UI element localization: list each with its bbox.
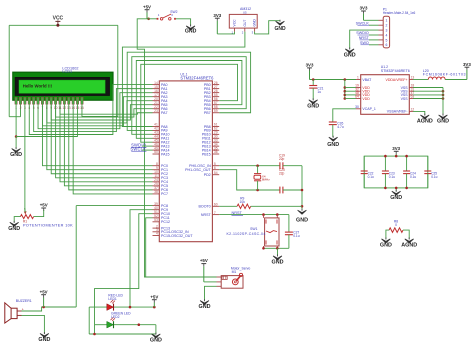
svg-text:3V3: 3V3 [360,6,368,11]
pin 43 PA10 [153,133,160,135]
svg-text:PB7: PB7 [204,111,211,115]
svg-text:SWCLK: SWCLK [130,147,146,152]
wire LCD data to U1 PA3 [42,97,152,126]
wire SW2 to GND [176,19,191,26]
switch SW2 [147,18,158,20]
svg-text:5: 5 [385,38,387,42]
svg-text:7: 7 [214,211,216,215]
pin 38 PC7 [153,193,160,195]
pin 18 VSS [409,87,413,89]
wire 3V3 to P1 pin1 [364,19,379,21]
LED LED2 GREEN LED [95,324,107,326]
svg-text:POTENTIOMENTER 10K: POTENTIOMENTER 10K [23,224,73,228]
wire AM312 GND [255,21,280,34]
wire +5V rail down to servo [137,19,216,277]
pin 14 PA0 [153,84,160,86]
svg-text:GND: GND [307,103,319,109]
pin 22 PA6 [153,108,160,110]
svg-text:+5V: +5V [40,289,48,294]
capacitor C27 0.1u [288,215,290,233]
wire VSSA to AGND [413,111,425,115]
wire LCD data to U1 PC0 [42,104,152,166]
pin 20 PA4 [153,100,160,102]
svg-text:VDD: VDD [362,97,370,101]
potentiometer R1 10K [20,215,33,219]
svg-text:VSSA/VREF-: VSSA/VREF- [387,110,409,114]
pin 52 PC11 [153,217,160,219]
pin 15 PA1 [153,88,160,90]
svg-text:PC15-OSC32_OUT: PC15-OSC32_OUT [161,234,193,238]
pin 31 VSS [409,90,413,92]
wire C19 to GND rail [283,165,302,167]
wire LCD data to U1 PC2 [51,104,152,174]
capacitor C19 22p [279,162,281,169]
pin 36 PB15 [212,153,219,155]
pin 60 BOOT0 [212,205,219,207]
junction crystal bottom [256,189,259,192]
svg-text:+5V: +5V [150,294,158,299]
svg-text:BOOT0: BOOT0 [199,205,211,209]
svg-text:2: 2 [385,24,387,28]
wire buzzer- to GND [22,315,45,333]
svg-text:NRST: NRST [232,211,243,215]
pin 4 P1 [379,34,384,36]
pin 35 PB14 [212,149,219,151]
svg-text:4: 4 [385,33,387,37]
capacitor C24 0.1u [406,156,408,171]
junction buzzer +5V [42,306,45,309]
resistor R9 10k on BOOT0 [219,205,237,207]
wire VDD rail [344,80,346,99]
svg-text:NRST: NRST [201,213,212,217]
pin 55 PB3 [212,96,219,98]
svg-text:GND: GND [327,142,339,148]
pin 5 PH0-OSC_IN [212,165,219,167]
junction SW1 pins top [262,213,265,216]
LCD module LCD1 LCD1602 [13,72,113,100]
resistor R8 0 [389,228,403,233]
wire decoupling bank rails [364,156,428,188]
pin 6 PH1-OSC_OUT [212,169,219,171]
svg-text:GND: GND [380,243,392,249]
svg-text:3: 3 [385,29,387,33]
svg-text:0.1u: 0.1u [389,175,395,179]
pin 29 PB10 [212,133,219,135]
ground GND at buzzer [43,332,45,334]
svg-text:PA15: PA15 [161,152,170,156]
svg-text:+5V: +5V [200,258,208,263]
pin 3 P1 [379,29,384,31]
svg-text:GND: GND [272,260,284,266]
ground AGND at VSSA [424,114,426,116]
pin 8 PC0 [153,165,160,167]
svg-text:PD2: PD2 [204,173,211,177]
connector P1 Header-Male-2.54_1x6 [383,16,389,48]
svg-text:3V3: 3V3 [463,62,471,67]
pin 51 PC10 [153,213,160,215]
capacitor C25 0.1u [427,156,429,171]
wire PH0-OSC_IN to crystal [219,165,280,167]
pin 24 PC4 [153,181,160,183]
wire loop U1 PA10 to PB6 [132,57,246,135]
junction +5V at red LED [153,306,156,309]
svg-text:0.1u: 0.1u [293,234,300,238]
wire U1 PC10 to green LED [95,214,153,325]
wire R1 right to +5V [34,210,44,216]
wire cap bank to GND [395,188,397,191]
svg-text:GND: GND [185,29,197,35]
svg-text:GND: GND [390,195,402,201]
ground GND at VSS [442,114,444,116]
capacitor C22 0.1u [363,156,365,171]
pin 32 VDD [356,90,361,92]
svg-text:8MHz: 8MHz [262,178,270,182]
wire loop U1 PA12 to PB4 [141,64,238,142]
svg-text:LED2: LED2 [111,315,120,319]
pin 19 VDD [356,87,361,89]
svg-text:LCD1: LCD1 [62,69,72,73]
wire servo power [204,281,217,283]
pin 47 VSS [409,94,413,96]
wire U1 PC9 to red LED [130,210,153,307]
pin 37 PC6 [153,189,160,191]
wire loop U1 PA9 to PB7 [127,52,250,130]
svg-text:GND: GND [150,338,162,344]
svg-text:6: 6 [214,166,216,170]
wire loop U1 PA11 to PB5 [136,61,242,139]
pin 5 P1 [379,39,384,41]
svg-text:GND: GND [8,226,20,232]
junction LCD GND net [15,135,18,138]
wire R1 left to GND [14,217,20,223]
ground GND at C21 [312,98,314,100]
wire LCD pin16 to VCC loop [82,104,118,116]
capacitor C21 1u [312,80,314,86]
sensor U5 AM312 [229,14,257,28]
LED LED1 RED LED [89,306,107,308]
ground GND under LCD [15,137,17,149]
pin 2 PC13 [153,227,160,229]
pin 50 PA15 [153,153,160,155]
svg-text:0.1u: 0.1u [410,175,416,179]
svg-text:3V3: 3V3 [213,13,221,18]
svg-text:53: 53 [154,218,158,222]
wire LCD data to U1 PA5 [51,104,152,120]
ground GND at C26 [332,136,334,138]
wire LCD data to U1 PA1 [34,89,153,132]
svg-text:59: 59 [214,109,218,113]
junction crystal top [256,164,259,167]
pin 4 PC15-OSC32_OUT [153,235,160,237]
wire LED return rails to GND [88,307,90,334]
svg-text:23: 23 [154,109,158,113]
pin 53 PC12 [153,221,160,223]
svg-text:6: 6 [385,43,387,47]
inductor L20 FCM1608KF-601T03 [413,79,428,81]
wire R8 left to GND [386,230,389,239]
svg-text:4: 4 [156,232,158,236]
svg-text:SW1: SW1 [250,227,257,231]
pin 25 PC5 [153,185,160,187]
svg-text:LED1: LED1 [108,297,117,301]
pin 30 VCAP_1 [356,108,361,110]
wire P1 pin3 to GND [350,30,379,49]
wire LCD data to U1 PC5 [64,104,152,186]
svg-text:VBAT: VBAT [362,78,372,82]
svg-text:PB15: PB15 [202,152,211,156]
wire LCD data to U1 PC1 [47,104,153,170]
wire buzzer+ to +5V junction and U1 PC8 [22,307,77,311]
pin 41 PA8 [153,126,160,128]
svg-text:PA7: PA7 [161,111,168,115]
capacitor C20 22p [279,187,281,194]
LCD pin pads [15,97,17,104]
svg-text:38: 38 [154,190,158,194]
ground GND at SW2 [190,24,192,26]
wire U1 PC11 to servo row [146,218,153,277]
ground GND at servo [204,299,206,301]
svg-text:PC7: PC7 [161,192,168,196]
pin 21 PA5 [153,104,160,106]
pin 2 P1 [379,24,384,26]
junction C21 tap [312,78,315,81]
junction LED GND rail [93,333,96,336]
wire LCD data to U1 PC7 [73,104,152,194]
svg-text:BUZZER1: BUZZER1 [16,299,32,303]
svg-text:22p: 22p [279,157,285,161]
svg-text:STM32F446RET6: STM32F446RET6 [180,75,214,80]
svg-text:STM32F446RET6: STM32F446RET6 [381,69,410,73]
pin 48 VDD [356,94,361,96]
svg-text:1: 1 [385,19,387,23]
svg-text:3V3: 3V3 [306,63,314,68]
svg-text:GND: GND [10,152,22,158]
svg-text:AGND: AGND [417,119,433,125]
svg-text:10k: 10k [240,200,246,204]
svg-text:2: 2 [20,106,22,110]
svg-text:SWCLK: SWCLK [356,21,370,25]
wire servo GND [205,286,217,300]
pin 23 PA7 [153,112,160,114]
ground AGND at R8 [408,237,410,239]
junction VDD rail top [344,78,347,81]
pin 12 VSSA/VREF- [409,110,413,112]
wire VSS rail to GND [413,87,443,89]
pin 49 PA14 [153,149,160,151]
svg-text:50: 50 [154,150,158,154]
wire LCD pin3 to potentiometer wiper [24,104,26,211]
wire LCD data to U1 PC4 [60,104,153,182]
buzzer BUZZER1 [11,308,17,318]
ground GND at P1 [349,47,351,49]
pin 39 PC8 [153,205,160,207]
svg-text:3V3: 3V3 [392,146,400,151]
ground GND at LEDs [155,333,157,335]
wire SW1 bottom rail [264,247,289,249]
pin 3 PC14-OSC32_IN [153,231,160,233]
pin 6 P1 [379,44,384,46]
junction green LED feeder [138,323,141,326]
mcu U1 STM32F446RET6 unit A [159,81,212,242]
pin 57 PB5 [212,104,219,106]
svg-text:GND: GND [199,304,211,310]
svg-text:0: 0 [395,223,397,227]
svg-text:4.7u: 4.7u [337,125,344,129]
svg-text:K2-1102SP-C4SC-04: K2-1102SP-C4SC-04 [227,232,266,236]
pin 13 VDDA/VREF+ [409,79,413,81]
svg-text:Header-Male-2.54_1x6: Header-Male-2.54_1x6 [383,11,416,15]
pin 63 VSS [409,98,413,100]
pin 27 PB1 [212,88,219,90]
pin 16 PA2 [153,92,160,94]
svg-text:Hello World !!!: Hello World !!! [23,83,53,88]
ground GND at crystal [301,209,303,211]
pin 59 PB7 [212,112,219,114]
pin 62 PB9 [212,129,219,131]
svg-text:SWO: SWO [360,41,369,45]
wire 3V3 to AM312 VCC [217,32,234,34]
svg-text:AGND: AGND [401,243,417,249]
wire R8 right to AGND [403,230,409,239]
wire U1 PC8 row [76,205,152,207]
junction SW1 pins bottom [262,247,265,250]
wire GND rail under LCD [16,136,78,138]
ground GND at R1 [13,221,15,223]
svg-text:VSS: VSS [401,97,409,101]
capacitor C23 0.1u [384,156,386,171]
pin 9 PC1 [153,169,160,171]
mcu U1.2 STM32F446RET6 power unit [361,75,410,115]
wire LCD pin15 [77,104,79,136]
svg-text:FCM1608KF-601T03: FCM1608KF-601T03 [423,73,466,77]
junction GND rail C20 [301,189,304,192]
svg-text:+5V: +5V [40,203,48,208]
wire LCD data to U1 PA7 [60,104,153,114]
wire NRST net [219,214,289,216]
svg-text:GND: GND [253,19,257,27]
svg-text:60: 60 [214,203,218,207]
pin 1 P1 [379,19,384,21]
ground GND at SW1 [277,254,279,256]
pin 26 PB0 [212,84,219,86]
wire SW1 to GND [277,248,279,256]
pin 34 PB13 [212,145,219,147]
svg-text:GND: GND [437,119,449,125]
svg-text:0.1u: 0.1u [431,175,437,179]
wire PH1-OSC_OUT to crystal [219,170,280,190]
svg-text:PH1-OSC_OUT: PH1-OSC_OUT [185,168,211,172]
wire LCD data to U1 PA6 [56,104,153,117]
pin 42 PA9 [153,129,160,131]
pin 61 PB8 [212,126,219,128]
svg-text:VCAP_1: VCAP_1 [362,107,375,111]
wire VCAP_1 to C26 [333,109,356,122]
svg-text:1: 1 [357,76,359,80]
svg-text:OUT: OUT [243,20,247,27]
pin 58 PB6 [212,108,219,110]
pin 30 PB11 [212,137,219,139]
pin 44 PA11 [153,137,160,139]
svg-text:VDDA/VREF+: VDDA/VREF+ [386,78,408,82]
svg-text:PC12: PC12 [161,220,170,224]
svg-text:36: 36 [214,150,218,154]
svg-text:GND: GND [38,337,50,343]
wire crystal GND rail [301,166,303,211]
servo motor M1 Motor_Servo [221,276,243,289]
ground GND at cap bank [395,190,397,192]
svg-text:GND: GND [296,218,308,224]
wire 3V3 to VBAT and VDD rail [310,79,357,81]
svg-text:U5: U5 [243,10,247,14]
svg-text:GND: GND [344,53,356,59]
pin 64 VDD [356,98,361,100]
svg-text:M1: M1 [232,270,237,274]
svg-text:NRST: NRST [359,36,370,40]
pin 17 PA3 [153,96,160,98]
ground GND at AM312 [279,20,281,22]
crystal X4 8MHz [257,166,259,174]
svg-text:0.1u: 0.1u [368,175,374,179]
capacitor C26 4.7u [329,121,337,123]
pin 1 VBAT [356,79,361,81]
svg-text:GND: GND [274,26,286,32]
pin 33 PB12 [212,141,219,143]
pin 46 PA13 [153,145,160,147]
pin 54 PD2 [212,174,219,176]
switch SW1 K2-1102SP-C4SC-04 [265,218,279,246]
wire LCD data to U1 PA2 [38,93,152,129]
pin 28 PB2 [212,92,219,94]
pin 11 PC3 [153,177,160,179]
ground GND at R8 [385,237,387,239]
wire VCC loop around LCD [9,24,118,26]
wire LCD data to U1 PC3 [56,104,153,178]
pin 56 PB4 [212,100,219,102]
wire LCD data to U1 PC6 [69,104,153,190]
svg-text:22p: 22p [279,172,285,176]
wire LCD pin1 to GND [15,104,17,136]
pin 7 NRST [212,214,219,216]
pin 45 PA12 [153,141,160,143]
pin 40 PC9 [153,209,160,211]
wire buzzer PC8 riser [75,206,77,307]
junction GND rail BOOT0 [301,205,304,208]
pin 10 PC2 [153,173,160,175]
svg-text:VCC: VCC [233,19,237,27]
junction red LED cathode [129,306,132,309]
svg-text:SWDIO: SWDIO [356,31,369,35]
svg-text:+5V: +5V [143,4,151,9]
svg-text:SW2: SW2 [170,10,177,14]
wire LCD data to U1 PA0 [29,85,152,135]
wire LCD data to U1 PA4 [47,101,153,123]
junction +5V SW2 [147,18,150,21]
svg-text:1u: 1u [317,90,321,94]
wire AM312 OUT to U1 PA8 [122,32,244,127]
svg-text:54: 54 [214,171,218,175]
